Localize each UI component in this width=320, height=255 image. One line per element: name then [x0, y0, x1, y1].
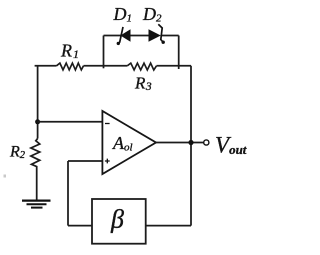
label R2	[9, 144, 26, 162]
label D2	[142, 4, 162, 25]
svg-text:Vout: Vout	[215, 133, 247, 158]
svg-text:D1: D1	[113, 4, 133, 25]
label beta	[110, 205, 124, 234]
svg-text:R1: R1	[60, 41, 79, 62]
wire: top horizontal R1-R3 line y=66	[35, 65, 191, 67]
svg-text:R3: R3	[134, 74, 152, 94]
svg-text:D2: D2	[142, 4, 162, 25]
scan artifact dot	[4, 175, 7, 178]
resistor R3	[127, 63, 156, 70]
op-amp plus sign	[105, 159, 110, 164]
node: junction dot left (inverting input tap)	[35, 119, 40, 124]
wire: diode branch right vertical	[178, 36, 180, 70]
wire: non-inverting input wire	[68, 160, 102, 162]
terminal: Vout open circle	[204, 140, 209, 145]
ground	[22, 201, 51, 208]
wire: right vertical	[190, 66, 192, 226]
resistor R2	[31, 139, 40, 201]
label R1	[60, 41, 79, 62]
label Vout	[215, 133, 247, 158]
label D1	[113, 4, 133, 25]
wire: diode branch horizontal segments	[104, 35, 179, 37]
op-amp minus sign	[105, 123, 110, 125]
label R3	[134, 74, 152, 94]
op-amp U1 triangle	[102, 111, 156, 174]
node: output junction dot	[188, 140, 193, 145]
svg-text:β: β	[110, 205, 124, 234]
label Aol op-amp gain	[112, 133, 133, 154]
wire: op-amp output wire	[156, 142, 204, 144]
wire: feedback bottom-left horizontal to beta block	[68, 225, 92, 227]
diode D2	[149, 24, 165, 44]
wire: left vertical	[37, 66, 39, 139]
wire: beta block to right vertical	[146, 225, 191, 227]
wire: inverting input wire	[38, 121, 103, 123]
wire: diode branch left vertical	[103, 36, 105, 69]
wire: feedback left vertical	[67, 161, 69, 226]
resistor R1	[57, 63, 84, 70]
diode D1	[117, 27, 131, 45]
beta feedback block	[92, 199, 146, 244]
svg-text:R2: R2	[9, 144, 26, 162]
